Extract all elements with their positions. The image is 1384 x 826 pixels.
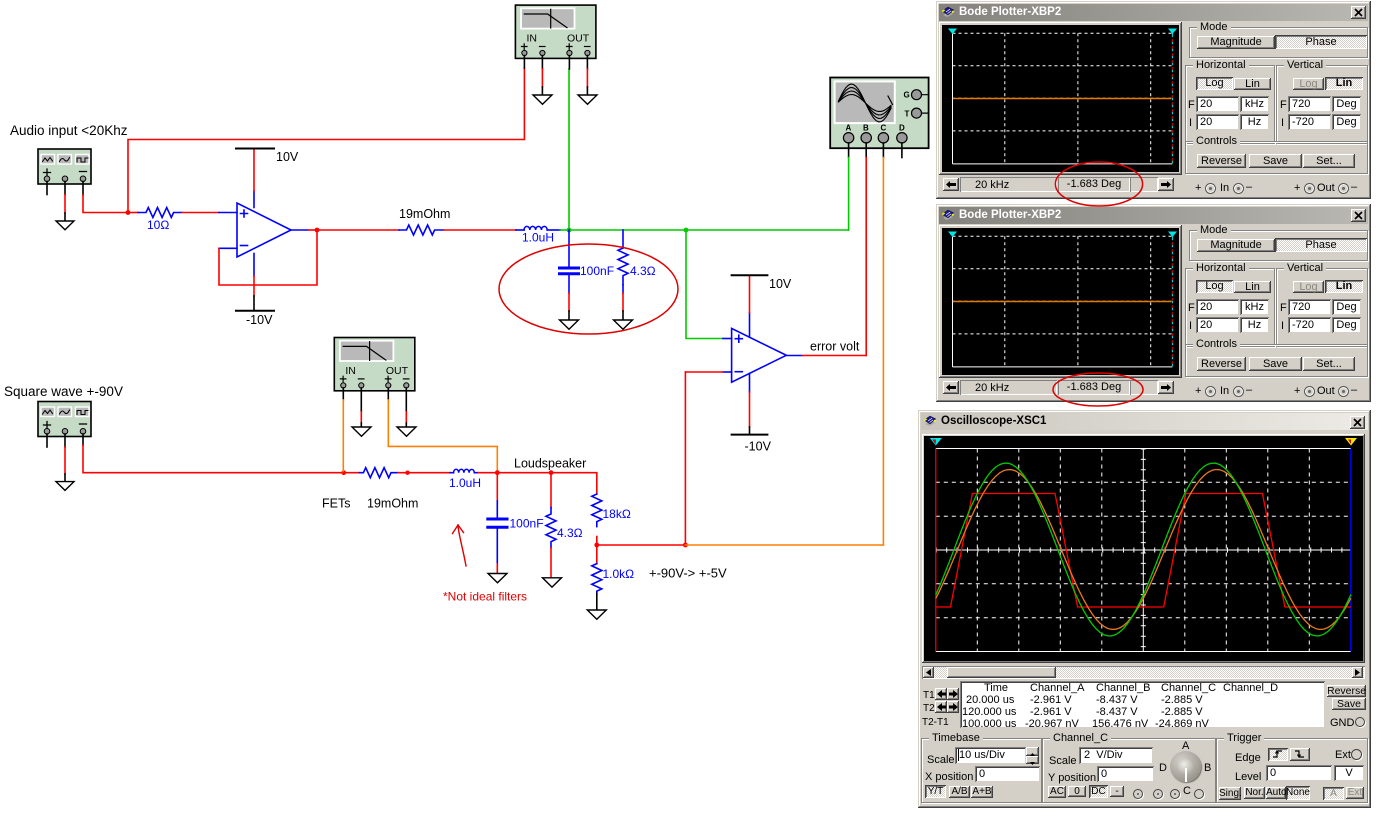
wire: divider node to U2- node	[597, 544, 686, 546]
bode plotter XBP2 icon	[334, 338, 415, 391]
wire: XBP2 IN- to ground	[360, 388, 362, 412]
wire: XFG2 com to ground	[64, 434, 66, 447]
svg-text:C: C	[881, 124, 887, 133]
power -10V bar (U2)	[732, 434, 768, 436]
capacitor C1 100nF	[568, 230, 570, 267]
power +10V bar (U1)	[236, 148, 274, 150]
Bode Plotter window 1	[936, 1, 1371, 199]
svg-text:FETs: FETs	[322, 497, 350, 511]
oscilloscope XSC1 icon	[830, 78, 928, 149]
inductor L2 1.0uH (bottom)	[450, 472, 454, 474]
svg-text:Loudspeaker: Loudspeaker	[514, 457, 586, 471]
wire: net up to Bode XBP1 IN+	[128, 68, 524, 213]
svg-text:19mOhm: 19mOhm	[399, 207, 450, 221]
svg-text:-10V: -10V	[246, 313, 273, 327]
wire: XFG1 minus down	[82, 182, 84, 196]
wire: U2 inverting input	[723, 371, 732, 373]
svg-text:Square wave +-90V: Square wave +-90V	[4, 384, 123, 399]
resistor R7 1.0kohm	[596, 545, 598, 564]
svg-text:error volt: error volt	[810, 340, 860, 354]
power +10V bar (U2)	[732, 274, 768, 276]
svg-text:+-90V-> +-5V: +-90V-> +-5V	[649, 566, 727, 581]
svg-text:4.3Ω: 4.3Ω	[557, 526, 583, 540]
svg-text:*Not ideal filters: *Not ideal filters	[443, 590, 527, 604]
wire: orange to scope C	[685, 544, 883, 546]
function generator XFG1	[38, 149, 91, 184]
node junction at 596.8,545	[594, 543, 599, 548]
wire: XFG2 minus to bottom bus	[82, 434, 84, 445]
Oscilloscope window	[918, 410, 1371, 808]
node junction at 686,230 (green)	[684, 228, 689, 233]
resistor R4 19mOhm (bottom)	[344, 472, 360, 474]
annotation red ellipse on Bode window 2	[1053, 373, 1143, 406]
annotation red ellipse around C1/R3	[499, 244, 678, 334]
ground GND8	[397, 427, 416, 436]
ground GND1	[56, 221, 74, 230]
Bode Plotter window 2	[936, 204, 1371, 402]
bode plotter XBP1 icon	[515, 5, 596, 58]
svg-text:A: A	[846, 124, 852, 133]
wire: XFG2 plus stub	[46, 434, 48, 447]
wire: XFG1 plus stub	[46, 182, 48, 195]
wire: U1 output	[291, 229, 308, 231]
svg-text:IN: IN	[345, 365, 356, 377]
wire: U1 feedback loop	[219, 230, 317, 285]
node junction at 128,212.5	[126, 210, 131, 215]
node junction at 551,472.7	[549, 470, 554, 475]
node junction at 569,230 (green)	[567, 228, 572, 233]
ground GND9	[488, 574, 507, 583]
wire: XBP2 OUT+ orange to cap node	[387, 388, 389, 400]
resistor R1 10ohm	[128, 212, 138, 214]
ground GND5	[578, 95, 597, 104]
wire: green bus to scope A	[569, 229, 849, 231]
wire: scope B stub + red wire (error volt net)	[865, 143, 867, 158]
svg-text:100nF: 100nF	[510, 517, 544, 531]
svg-text:OUT: OUT	[567, 33, 590, 45]
wire: node to L2	[408, 472, 451, 474]
node junction at 685.4,545	[683, 543, 688, 548]
svg-text:OUT: OUT	[386, 365, 409, 377]
wire: R2 to L1	[444, 229, 516, 231]
wire: U2 VCC	[749, 313, 751, 337]
resistor R5 4.3ohm (bottom)	[550, 473, 552, 508]
svg-text:1.0uH: 1.0uH	[522, 231, 554, 245]
svg-text:18kΩ: 18kΩ	[603, 507, 631, 521]
ground GND11	[587, 610, 606, 619]
annotation red arrow (not ideal filters)	[458, 526, 466, 566]
wire: XBP1 IN+ stub	[523, 56, 525, 68]
node junction at 343.7,472.7	[341, 470, 346, 475]
wire: U2 inverting down to divider	[684, 372, 686, 545]
wire: green net to XBP1 OUT+	[568, 69, 570, 230]
node junction at 407.5,472.7	[405, 471, 409, 475]
wire: XBP1 OUT- to ground	[586, 56, 588, 69]
ground GND2	[560, 320, 579, 329]
resistor R6 18kohm	[592, 494, 602, 527]
wire: scope C stub + orange wire	[882, 143, 884, 158]
wire: U2 VEE	[749, 374, 751, 393]
ground GND7	[352, 427, 371, 436]
svg-text:1.0kΩ: 1.0kΩ	[603, 567, 635, 581]
wire: U1 inverting input lead	[219, 247, 237, 249]
wire: U1 VCC	[253, 191, 255, 208]
wire: green branch to U2 + input	[686, 230, 723, 339]
wire: L1 to node	[560, 229, 569, 231]
wire: scope D stub	[901, 143, 903, 158]
inductor L1 1.0uH	[516, 229, 524, 231]
svg-text:100nF: 100nF	[580, 264, 614, 278]
svg-text:D: D	[899, 124, 905, 133]
op-amp U2	[732, 328, 787, 382]
svg-text:4.3Ω: 4.3Ω	[630, 264, 656, 278]
resistor R3 4.3ohm	[622, 230, 624, 248]
wire: XBP2 OUT- to ground	[405, 388, 407, 412]
wire: U2 output to scope B	[786, 355, 802, 357]
op-amp U1	[237, 203, 291, 257]
svg-text:T: T	[905, 109, 910, 118]
svg-text:19mOhm: 19mOhm	[367, 497, 418, 511]
svg-text:10Ω: 10Ω	[147, 218, 169, 232]
svg-text:10V: 10V	[276, 150, 299, 164]
ground GND10	[543, 578, 562, 587]
power -10V bar (U1)	[236, 310, 274, 312]
svg-text:10V: 10V	[769, 277, 792, 291]
svg-text:B: B	[863, 124, 869, 133]
wire: XBP2 IN+ orange down to bus	[342, 388, 344, 400]
svg-text:Audio input <20Khz: Audio input <20Khz	[10, 123, 128, 138]
ground GND6	[56, 482, 74, 491]
svg-text:-10V: -10V	[745, 440, 772, 454]
wire: XFG1 com to ground	[64, 182, 66, 195]
wire: L2 to node	[478, 472, 497, 474]
svg-text:IN: IN	[527, 33, 538, 45]
function generator XFG2	[38, 402, 91, 437]
capacitor C2 100nF (bottom)	[496, 473, 498, 501]
ground GND3	[614, 320, 633, 329]
wire: XBP1 OUT+ stub (green net)	[568, 56, 570, 69]
wire: U1 VEE	[253, 254, 255, 277]
node junction at 317,230	[315, 228, 320, 233]
svg-text:1.0uH: 1.0uH	[449, 476, 481, 490]
ground GND4	[533, 95, 552, 104]
node junction at 497.3,472.7	[495, 470, 500, 475]
wire: XBP1 IN- to ground	[541, 56, 543, 69]
wire: scope A stub + green wire	[848, 143, 850, 158]
svg-text:G: G	[904, 91, 910, 100]
